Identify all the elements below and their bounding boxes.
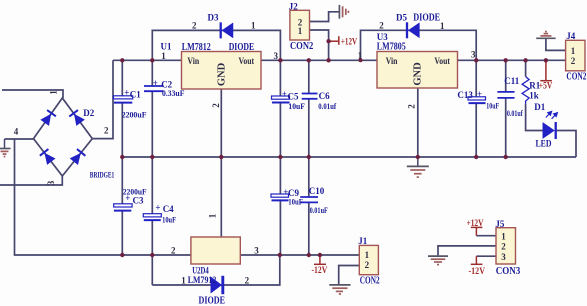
svg-text:1: 1 (181, 276, 186, 286)
svg-text:+12V: +12V (467, 218, 484, 228)
svg-text:2: 2 (245, 276, 250, 286)
svg-text:2: 2 (211, 103, 221, 108)
svg-text:2: 2 (192, 20, 197, 30)
svg-text:GND: GND (217, 62, 228, 86)
svg-text:Vin: Vin (386, 56, 398, 66)
svg-text:2200uF: 2200uF (123, 187, 147, 197)
svg-text:2: 2 (501, 242, 506, 252)
svg-text:10uF: 10uF (486, 100, 499, 110)
svg-text:D1: D1 (534, 102, 545, 112)
svg-text:C10: C10 (309, 186, 325, 196)
svg-text:J2: J2 (289, 1, 299, 11)
svg-text:CON2: CON2 (360, 275, 380, 286)
svg-text:+: + (124, 87, 129, 97)
svg-text:+: + (153, 78, 158, 88)
svg-text:J1: J1 (358, 236, 368, 246)
svg-text:2: 2 (104, 126, 109, 136)
svg-text:1: 1 (208, 213, 218, 218)
svg-text:3: 3 (501, 252, 506, 262)
svg-text:C3: C3 (133, 195, 144, 205)
svg-text:0.33uF: 0.33uF (162, 88, 184, 98)
svg-text:1: 1 (358, 51, 363, 61)
svg-text:1: 1 (571, 46, 576, 56)
svg-text:-12V: -12V (312, 265, 328, 275)
svg-text:3: 3 (471, 50, 476, 60)
svg-text:10uF: 10uF (288, 101, 305, 111)
svg-text:3: 3 (254, 246, 259, 256)
svg-text:+5V: +5V (539, 80, 553, 90)
svg-text:2: 2 (407, 104, 417, 109)
svg-text:1: 1 (440, 21, 445, 31)
svg-text:GND: GND (413, 62, 424, 86)
svg-text:DIODE: DIODE (229, 42, 255, 53)
svg-text:D5: D5 (396, 12, 407, 22)
svg-text:1: 1 (161, 51, 166, 61)
svg-text:10uF: 10uF (162, 215, 176, 225)
svg-text:2: 2 (379, 20, 384, 30)
svg-text:Vout: Vout (239, 56, 255, 66)
svg-text:D2: D2 (83, 108, 94, 118)
svg-text:LED: LED (536, 138, 552, 148)
svg-text:+: + (155, 202, 160, 212)
svg-text:1: 1 (49, 90, 59, 95)
svg-text:CON2: CON2 (290, 41, 313, 52)
svg-text:4: 4 (14, 126, 19, 136)
svg-text:D3: D3 (208, 12, 219, 22)
svg-text:C6: C6 (319, 91, 330, 101)
svg-text:3: 3 (274, 51, 279, 61)
svg-text:BRIDGE1: BRIDGE1 (90, 171, 115, 180)
svg-text:LM7805: LM7805 (377, 41, 406, 52)
svg-text:Vin: Vin (187, 56, 199, 66)
svg-text:10uF: 10uF (288, 197, 303, 207)
svg-text:+: + (282, 89, 287, 99)
svg-text:2: 2 (571, 56, 576, 66)
svg-text:1: 1 (365, 250, 370, 260)
svg-text:DIODE: DIODE (199, 296, 226, 306)
svg-text:1: 1 (501, 231, 506, 241)
svg-text:2200uF: 2200uF (122, 109, 147, 119)
svg-text:J5: J5 (495, 219, 505, 229)
svg-text:1: 1 (298, 26, 303, 36)
svg-text:LM7812: LM7812 (182, 42, 211, 53)
svg-text:J4: J4 (566, 31, 576, 41)
svg-text:2: 2 (365, 260, 370, 270)
svg-text:CON2: CON2 (566, 71, 586, 82)
svg-text:C4: C4 (163, 204, 174, 214)
svg-text:1: 1 (251, 20, 256, 30)
svg-text:-12V: -12V (469, 266, 486, 276)
svg-text:1k: 1k (529, 90, 539, 100)
svg-text:C13: C13 (457, 90, 473, 100)
svg-text:0.01uF: 0.01uF (310, 205, 328, 215)
svg-text:Vout: Vout (434, 56, 450, 66)
svg-text:C11: C11 (504, 76, 520, 86)
svg-text:2: 2 (171, 245, 176, 255)
svg-text:DIODE: DIODE (413, 12, 440, 23)
svg-text:+: + (477, 89, 482, 99)
svg-text:C1: C1 (130, 89, 141, 99)
svg-text:0.01uf: 0.01uf (318, 101, 336, 111)
svg-text:C5: C5 (288, 91, 299, 101)
svg-text:LM7912: LM7912 (188, 275, 217, 285)
svg-text:CON3: CON3 (496, 266, 521, 277)
svg-text:3: 3 (46, 180, 56, 185)
svg-text:U2D4: U2D4 (192, 265, 209, 275)
svg-text:0.01uf: 0.01uf (507, 108, 523, 118)
svg-text:+12V: +12V (341, 36, 358, 46)
